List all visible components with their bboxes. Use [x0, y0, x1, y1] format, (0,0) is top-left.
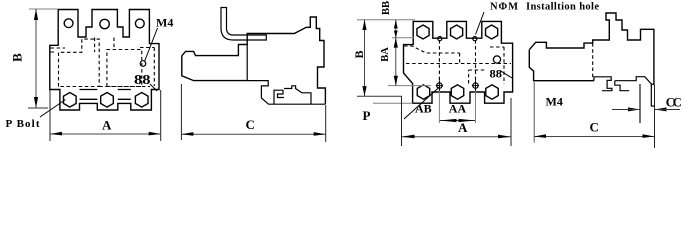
dashed box around 88 (fig3) — [469, 70, 486, 84]
BA arrow down — [394, 76, 398, 86]
body bottom edge segments between bolt tabs — [80, 89, 131, 91]
svg-text:88: 88 — [134, 72, 151, 87]
A arrow right (fig3) — [498, 135, 511, 139]
CC leader tails — [612, 109, 680, 111]
installation hole 2 (phi) — [473, 83, 478, 88]
terminal hole circle 2 — [100, 19, 109, 28]
C dimension line — [181, 133, 325, 135]
B arrow down — [34, 97, 38, 108]
dimension C (fig4) — [534, 82, 655, 148]
relay body outline (front view 2) — [404, 21, 513, 103]
side view outline top (fig4) — [529, 13, 654, 85]
rail bottom right (fig4) — [651, 84, 654, 106]
dashed section line (fig4) — [592, 43, 594, 81]
C left extension line — [180, 84, 182, 140]
C dimension line (fig4) — [534, 136, 655, 138]
B arrow up (fig3) — [362, 20, 366, 30]
B arrow down (fig3) — [362, 86, 366, 96]
mounting bar top lines between bolt tabs — [80, 98, 131, 100]
svg-text:C: C — [246, 117, 255, 132]
C left extension (fig4) — [533, 82, 535, 143]
C right extension line — [325, 105, 327, 142]
dashed edge near right side (fig3) — [490, 47, 504, 84]
reset hole circle right — [493, 56, 500, 63]
svg-text:CC: CC — [666, 95, 682, 109]
dimension A (fig1) — [50, 90, 161, 141]
bolt hex 1 — [417, 85, 429, 99]
BB top extension line (fig3) — [357, 19, 415, 21]
svg-text:NΦM: NΦM — [490, 2, 518, 13]
small diagonal at 88 — [150, 84, 157, 91]
svg-text:Installtion hole: Installtion hole — [526, 2, 599, 13]
bottom staircase A (fig4) — [594, 77, 612, 91]
dimension B (fig3) — [357, 20, 431, 103]
svg-text:B: B — [10, 53, 25, 62]
svg-text:P: P — [363, 108, 371, 123]
terminal hex 1 — [417, 25, 429, 39]
svg-text:AA: AA — [449, 101, 467, 115]
rail front edge (fig4) — [639, 84, 641, 123]
dimension C (fig2) — [181, 84, 325, 142]
small screw circle on ledge 1 — [438, 37, 442, 41]
C right extension (fig4) — [654, 85, 656, 149]
hex bolt 3 — [135, 93, 148, 108]
dashed diagonal top-left (fig3) — [404, 46, 460, 53]
A arrow right — [149, 132, 161, 136]
bottom staircase B lower (fig4) — [615, 81, 629, 91]
svg-text:M4: M4 — [156, 16, 173, 30]
C arrow left (fig4) — [534, 134, 546, 138]
ledge to right block — [284, 86, 311, 104]
A left extension line — [49, 90, 51, 141]
dashed internal cover left — [59, 39, 100, 86]
CC arrow pointing left — [655, 107, 667, 111]
svg-text:B: B — [352, 50, 366, 58]
dashed edge near right side — [99, 48, 154, 87]
M4 screw hole circle — [140, 61, 146, 67]
B arrow up — [34, 9, 38, 20]
BB arrow down to ledge — [394, 31, 398, 38]
dashed verticals below top notches — [95, 38, 114, 53]
terminal hex 3 — [486, 25, 498, 39]
B dimension line (fig3) — [364, 20, 366, 97]
A right extension (fig3) — [510, 98, 512, 146]
relay body outline (front view 1) — [50, 10, 159, 111]
svg-text:88: 88 — [490, 67, 503, 81]
centerline through install hole 2 — [472, 80, 479, 91]
leader through AB to install hole 1 — [404, 87, 440, 120]
tab-bottom extension line (fig3) — [373, 102, 413, 104]
installation hole 1 (phi) — [437, 83, 442, 88]
AA extension continuations — [439, 91, 475, 123]
B bottom extension line (fig3) — [357, 95, 402, 97]
svg-text:P Bolt: P Bolt — [6, 118, 40, 130]
internal divider line — [246, 45, 248, 81]
A dimension line (fig3) — [402, 136, 512, 138]
centerline through install hole 1 — [436, 80, 443, 91]
terminal hex 2 — [451, 25, 463, 39]
AA arrow right — [459, 119, 476, 122]
small diagonal at 88 (fig3) — [500, 71, 512, 79]
svg-text:C: C — [590, 120, 599, 135]
side view outline left-bottom (fig4) — [529, 50, 594, 81]
dimension AA line — [439, 120, 475, 122]
side view left-bottom outline — [182, 56, 247, 81]
svg-text:A: A — [458, 120, 468, 135]
svg-text:M4: M4 — [546, 95, 563, 109]
A arrow left — [50, 132, 62, 136]
dashed centerlines in body (fig3) — [439, 40, 475, 80]
C arrow right (fig4) — [643, 134, 655, 138]
B top extension line — [29, 8, 58, 10]
hex bolt 1 — [63, 93, 76, 108]
leader from NPhiM to screw circle — [476, 12, 485, 35]
leader line from P Bolt to hex bolt 1 — [40, 100, 66, 118]
dashed internal line horizontal (fig3) — [406, 63, 511, 65]
svg-text:A: A — [102, 118, 112, 133]
leader line to M4 hole — [145, 28, 158, 62]
A left extension (fig3) — [401, 96, 403, 146]
B dimension line — [35, 9, 37, 108]
C arrow right — [314, 132, 326, 136]
bottom staircase B (fig4) — [615, 77, 654, 85]
terminal hole circle 3 — [135, 19, 144, 28]
BA top extension line — [392, 37, 414, 39]
terminal hole circle 1 — [64, 19, 73, 28]
BB arrow up — [394, 20, 398, 29]
AA arrow left — [439, 119, 456, 122]
bolt hex 2 — [451, 85, 463, 99]
svg-text:BB: BB — [381, 1, 392, 15]
side view upper outline — [182, 17, 326, 104]
B bottom extension line — [28, 107, 48, 109]
CC arrow pointing right — [628, 107, 640, 111]
lower step zigzag — [247, 81, 325, 105]
C arrow left — [181, 132, 193, 136]
svg-text:BA: BA — [380, 47, 391, 62]
mounting clip hook (top) — [221, 8, 266, 41]
BA arrow up — [394, 38, 398, 48]
dashed internal cover right — [107, 50, 142, 87]
dimension B (fig1) — [28, 9, 58, 108]
dashed stub top-left — [51, 48, 66, 52]
BB-BA dimension line — [395, 20, 397, 86]
A arrow left (fig3) — [402, 135, 415, 139]
svg-text:AB: AB — [415, 101, 432, 115]
A right extension line — [160, 90, 162, 141]
dashed vertical mid (fig3) — [459, 53, 461, 64]
small rail bracket — [274, 90, 284, 104]
dimension A (fig3) — [402, 96, 512, 146]
bolt hex 3 — [486, 85, 498, 99]
BA bottom extension line — [388, 85, 431, 87]
small screw circle on ledge 2 — [473, 37, 477, 41]
A dimension line — [50, 133, 161, 135]
hex bolt 2 — [101, 93, 114, 108]
